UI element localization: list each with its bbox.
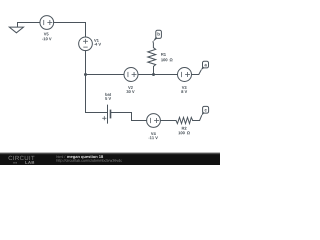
node junction left [84, 73, 87, 76]
wire R2 to flag c [193, 116, 202, 121]
ground [9, 23, 23, 33]
label a [205, 64, 207, 66]
label -10 V [42, 37, 51, 40]
wire junction to battery [86, 75, 107, 113]
wire V4 to R2 [160, 120, 176, 122]
label V4 [151, 132, 156, 135]
node flag a [201, 61, 209, 70]
label 8 V [181, 90, 187, 93]
label 100 ohm R2 [178, 131, 189, 134]
resistor R2 [176, 117, 193, 123]
battery plus sign [103, 117, 106, 120]
voltage source V2 [124, 68, 138, 82]
node flag c [202, 106, 209, 115]
wire V2 to junction2 [138, 74, 154, 76]
label 5 V [105, 97, 111, 100]
label -4 V [94, 43, 101, 46]
label V3 [182, 86, 187, 89]
wire battery to V4 [111, 113, 147, 121]
circuitlab logo [9, 156, 35, 164]
wire junction to V2 [86, 74, 125, 76]
label c [205, 109, 207, 111]
label R1 [161, 53, 166, 56]
resistor R1 [148, 42, 156, 75]
label 100 ohm [161, 58, 172, 61]
label V1 [94, 39, 99, 42]
node junction right [152, 73, 155, 76]
label V2 [128, 86, 133, 89]
wire ground to V5 [18, 22, 40, 24]
wire V5 to V1 [54, 23, 86, 37]
label 30 V [126, 90, 134, 93]
voltage source V3 [178, 68, 192, 82]
label R2 [182, 127, 187, 130]
battery bat [108, 105, 111, 123]
wire junction2 to V3 [154, 74, 178, 76]
voltage source V4 [147, 114, 161, 128]
voltage source V5 [40, 16, 54, 30]
label b [158, 32, 160, 35]
label bat [105, 93, 111, 96]
wire V3 to flag a [192, 70, 202, 74]
label -11 V [148, 136, 157, 139]
label V5 [44, 33, 49, 36]
node flag b [153, 30, 161, 42]
footer url text [57, 159, 122, 162]
footer bar [0, 153, 220, 166]
footer title text [57, 155, 66, 158]
voltage source V1 [79, 37, 93, 51]
wire V1 to junction [85, 51, 87, 75]
